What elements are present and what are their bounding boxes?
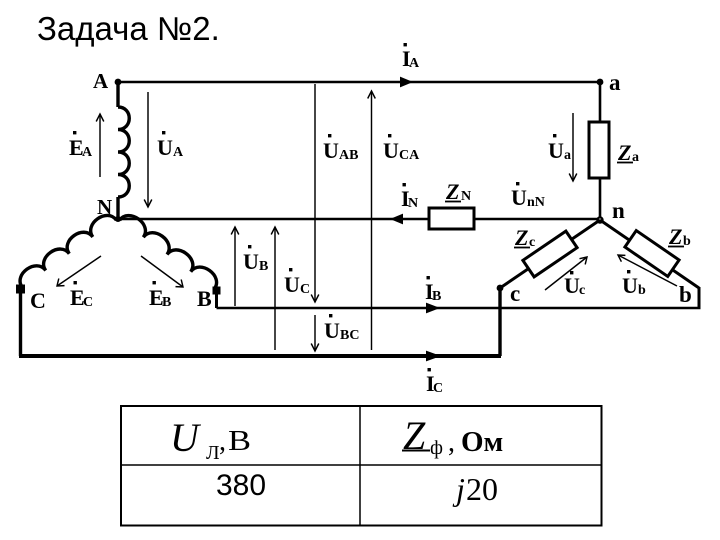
voltage arrow U_b xyxy=(618,255,677,286)
current arrow I_N xyxy=(390,214,403,225)
node C xyxy=(16,285,25,294)
svg-text:b: b xyxy=(683,234,691,249)
svg-text:N: N xyxy=(408,196,418,211)
table column divider xyxy=(359,406,361,526)
svg-text:U: U xyxy=(323,138,339,163)
svg-text:A: A xyxy=(173,145,184,160)
value j20 xyxy=(452,471,498,507)
svg-text:C: C xyxy=(300,282,310,297)
label Z_a xyxy=(617,140,639,165)
svg-text:AB: AB xyxy=(339,148,358,163)
svg-text:B: B xyxy=(432,289,441,304)
svg-text:U: U xyxy=(170,415,202,460)
wire C vertical xyxy=(19,289,22,356)
svg-text:Z: Z xyxy=(668,224,682,249)
label I_B xyxy=(425,276,441,304)
svg-text:n: n xyxy=(612,198,625,223)
voltage arrow U_A xyxy=(144,92,152,207)
node a xyxy=(597,79,604,86)
resistor Z_c xyxy=(523,231,577,277)
node c xyxy=(497,285,504,292)
label U_CA xyxy=(383,134,420,163)
svg-text:A: A xyxy=(409,56,420,71)
svg-text:nN: nN xyxy=(527,195,545,210)
label U_b xyxy=(622,270,646,298)
voltage arrow U_BC xyxy=(311,315,319,351)
svg-text:a: a xyxy=(632,150,639,165)
svg-text:A: A xyxy=(82,145,93,160)
table header divider xyxy=(121,464,602,466)
wire B jog xyxy=(215,290,218,308)
svg-text:c: c xyxy=(529,235,535,250)
resistor Z_a xyxy=(589,122,609,178)
svg-text:20: 20 xyxy=(466,471,498,507)
svg-text:U: U xyxy=(284,272,300,297)
label I_A xyxy=(402,43,420,71)
svg-text:U: U xyxy=(548,138,564,163)
svg-text:Ом: Ом xyxy=(461,426,503,458)
emf arrow E_B xyxy=(141,256,183,287)
winding phase A xyxy=(118,84,129,220)
svg-text:U: U xyxy=(324,318,340,343)
wire n to b diagonal xyxy=(600,220,699,288)
svg-text:c: c xyxy=(510,281,520,306)
wire a down xyxy=(599,82,602,122)
label E_C xyxy=(70,281,93,310)
label U_AB xyxy=(323,134,358,163)
wire Z_N to n xyxy=(474,218,600,221)
current arrow I_B xyxy=(426,303,440,314)
label U_c xyxy=(564,271,585,298)
svg-text:U: U xyxy=(564,273,580,298)
voltage line U_B xyxy=(231,227,239,306)
winding phase B xyxy=(120,216,217,289)
svg-text:b: b xyxy=(638,283,646,298)
label E_A xyxy=(69,131,93,160)
wire row B-b xyxy=(217,307,701,310)
svg-text:a: a xyxy=(609,70,621,95)
wire n to c diagonal xyxy=(500,220,600,288)
svg-text:U: U xyxy=(383,138,399,163)
node n xyxy=(597,217,602,222)
voltage arrow U_c xyxy=(545,257,587,290)
table header U_L,B xyxy=(170,415,251,464)
svg-text:Задача №2.: Задача №2. xyxy=(37,10,220,47)
svg-text:,: , xyxy=(219,426,226,457)
resistor Z_N xyxy=(429,208,474,229)
svg-text:C: C xyxy=(30,288,46,313)
svg-text:Z: Z xyxy=(514,225,528,250)
svg-text:U: U xyxy=(622,273,638,298)
svg-text:U: U xyxy=(157,135,173,160)
label U_B xyxy=(243,245,268,274)
label U_nN xyxy=(511,182,545,210)
label U_a xyxy=(548,134,571,163)
svg-text:CA: CA xyxy=(399,148,420,163)
resistor Z_b xyxy=(625,231,679,277)
winding phase C xyxy=(20,215,116,287)
svg-text:N: N xyxy=(461,189,471,204)
svg-text:BC: BC xyxy=(340,328,359,343)
voltage line U_AB xyxy=(311,84,319,302)
svg-text:B: B xyxy=(162,295,171,310)
label U_A xyxy=(157,131,184,160)
svg-text:B: B xyxy=(259,259,268,274)
svg-text:380: 380 xyxy=(216,469,266,502)
svg-text:Z: Z xyxy=(445,179,459,204)
label I_N xyxy=(401,183,418,211)
wire c vertical xyxy=(498,288,501,356)
current arrow I_A xyxy=(400,77,413,88)
label Z_N xyxy=(445,179,471,204)
current arrow I_C xyxy=(426,351,441,362)
node N xyxy=(115,216,121,222)
wire top A-a xyxy=(116,81,600,84)
label U_C xyxy=(284,268,310,297)
svg-text:В: В xyxy=(228,426,251,457)
label Z_b xyxy=(668,224,691,249)
svg-text:a: a xyxy=(564,148,571,163)
svg-text:C: C xyxy=(433,381,443,396)
label U_BC xyxy=(324,314,359,343)
svg-text:,: , xyxy=(448,427,455,458)
svg-text:c: c xyxy=(579,283,585,298)
voltage line U_C xyxy=(271,227,279,350)
voltage arrow U_a xyxy=(569,113,577,181)
svg-text:B: B xyxy=(197,286,212,311)
svg-text:Л: Л xyxy=(206,442,220,464)
wire Z_a to n xyxy=(599,178,602,220)
wire b jog xyxy=(698,287,701,308)
table outer border xyxy=(121,406,602,526)
label I_C xyxy=(426,368,443,396)
table header Z_f, Om xyxy=(402,413,503,459)
node B xyxy=(213,287,221,295)
svg-text:b: b xyxy=(679,282,692,307)
label Z_c xyxy=(514,225,535,250)
voltage line U_CA xyxy=(368,91,376,350)
svg-text:U: U xyxy=(243,249,259,274)
wire N to Z_N xyxy=(118,218,429,221)
svg-text:A: A xyxy=(93,69,109,93)
node A xyxy=(115,79,122,86)
emf arrow E_A xyxy=(96,114,104,177)
label E_B xyxy=(149,281,171,310)
emf arrow E_C xyxy=(57,256,101,286)
svg-text:C: C xyxy=(83,295,93,310)
svg-text:Z: Z xyxy=(617,140,631,165)
svg-text:U: U xyxy=(511,185,527,210)
svg-text:ф: ф xyxy=(430,437,443,459)
wire bottom bus xyxy=(19,354,501,358)
